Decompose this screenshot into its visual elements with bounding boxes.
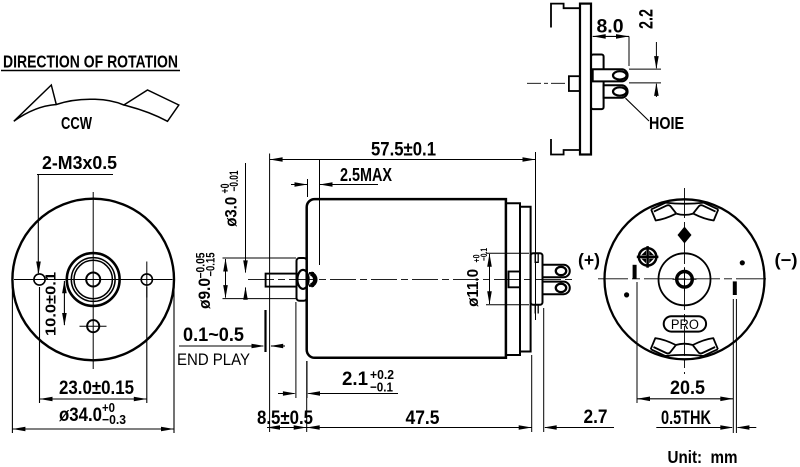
dimension 23.0±0.15 (40, 287, 147, 403)
endbell brush bar right (733, 281, 737, 295)
svg-text:−0.01: −0.01 (229, 170, 241, 191)
dimension 10.0±0.1 (42, 272, 66, 336)
svg-text:2.2: 2.2 (636, 9, 658, 29)
title DIRECTION OF ROTATION (1, 52, 180, 72)
svg-text:2.1: 2.1 (342, 369, 368, 390)
endbell screw symbol (637, 246, 659, 268)
endbell bottom vents (651, 338, 718, 356)
svg-text:47.5: 47.5 (406, 407, 440, 429)
detail bearing boss (569, 76, 580, 91)
terminal block (531, 253, 543, 305)
svg-text:(−): (−) (775, 250, 798, 270)
svg-text:57.5±0.1: 57.5±0.1 (371, 139, 436, 161)
svg-text:−0.1: −0.1 (479, 248, 490, 261)
terminal block notch (535, 253, 538, 313)
svg-text:8.5±0.5: 8.5±0.5 (257, 407, 313, 429)
svg-text:END PLAY: END PLAY (177, 351, 250, 369)
label HOIE with leader (626, 98, 685, 133)
PRO logo stadium (664, 316, 706, 332)
svg-text:PRO: PRO (671, 317, 699, 332)
dimension 2.7 (544, 308, 614, 432)
endcap bearing boss (509, 272, 521, 288)
svg-text:ø3.0: ø3.0 (222, 197, 241, 227)
dimension 57.5±0.1 (270, 139, 536, 433)
svg-text:HOIE: HOIE (649, 113, 684, 133)
mounting hole left (34, 274, 45, 285)
svg-text:2.7: 2.7 (584, 406, 608, 428)
front view shaft circle (86, 273, 100, 287)
label CCW (61, 113, 92, 133)
front view vertical centerline (92, 192, 94, 369)
detail body steps (551, 4, 580, 155)
dimension ø3.0 +0 -0.01 (220, 163, 248, 300)
endcap plate (506, 203, 520, 355)
dimension 8.0 (593, 16, 629, 67)
endbell top vents (651, 202, 718, 220)
svg-text:0.5THK: 0.5THK (661, 408, 711, 429)
dimension 2.5MAX (291, 160, 393, 265)
front view horizontal centerline (14, 279, 173, 281)
side view axis centerline (248, 278, 576, 280)
dimension end play (177, 310, 285, 369)
mounting hole right (141, 262, 152, 298)
label (+) (578, 250, 600, 270)
front view motor outline circle (12, 199, 174, 361)
bushing (297, 258, 307, 301)
svg-text:ø34.0: ø34.0 (59, 404, 102, 426)
svg-text:−0.3: −0.3 (102, 412, 126, 427)
svg-text:10.0±0.1: 10.0±0.1 (42, 272, 59, 336)
dimension 8.5±0.5 (257, 407, 313, 430)
endcap ring (520, 207, 531, 352)
endbell vertical centerline (684, 188, 686, 374)
lower hole (80, 320, 107, 332)
dimension ø11.0 +0 -0.1 (465, 248, 529, 307)
svg-text:ø11.0: ø11.0 (465, 269, 482, 307)
dimension 2.1 +0.2 -0.1 (278, 302, 398, 398)
shaft (266, 274, 297, 287)
detail terminal upper (593, 69, 628, 81)
svg-text:0.1~0.5: 0.1~0.5 (183, 325, 244, 346)
dimension 0.5THK (656, 408, 756, 430)
dimension 47.5 (307, 355, 532, 432)
svg-text:DIRECTION OF ROTATION: DIRECTION OF ROTATION (3, 52, 178, 72)
motor body (307, 199, 506, 358)
detail terminal lower (604, 85, 628, 98)
endbell shaft ring (673, 267, 697, 291)
svg-text:Unit: mm: Unit: mm (668, 447, 738, 467)
endbell horizontal centerline (598, 278, 770, 280)
label (-) (775, 250, 798, 270)
endbell diamond marker (678, 227, 692, 244)
endbell boss circle (659, 253, 711, 305)
unit note (668, 447, 738, 467)
rotation arrow CCW (14, 85, 179, 121)
detail endcap body (591, 55, 604, 110)
detail axis centerline (527, 82, 569, 84)
svg-text:20.5: 20.5 (670, 377, 705, 399)
svg-text:−0.1: −0.1 (370, 380, 393, 395)
svg-text:2-M3x0.5: 2-M3x0.5 (42, 152, 117, 173)
label 2-M3x0.5 with leader (36, 152, 117, 275)
svg-text:2.5MAX: 2.5MAX (340, 164, 393, 185)
terminal tab lower (543, 282, 570, 295)
svg-text:23.0±0.15: 23.0±0.15 (59, 377, 134, 399)
bearing cross-section (297, 270, 315, 289)
dimension 2.2 (629, 9, 661, 97)
detail endcap plate (580, 4, 591, 155)
endbell brush bar left (633, 265, 637, 279)
front view boss circles (67, 253, 120, 306)
endbell dot left (625, 293, 629, 297)
endbell dot right (740, 261, 744, 265)
svg-text:−0.15: −0.15 (206, 252, 218, 276)
terminal tab upper (543, 265, 570, 278)
svg-text:8.0: 8.0 (597, 16, 624, 38)
dimension ø9.0 (195, 252, 296, 309)
dimension ø34.0 +0 -0.3 (12, 283, 174, 433)
svg-text:(+): (+) (578, 250, 600, 270)
svg-text:CCW: CCW (61, 113, 92, 133)
dimension 20.5 (637, 282, 736, 433)
endbell outline circle (605, 199, 765, 359)
svg-text:ø9.0: ø9.0 (195, 278, 214, 309)
